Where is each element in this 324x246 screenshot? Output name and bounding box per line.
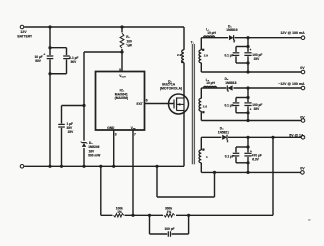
svg-text:1%: 1%	[167, 210, 172, 214]
svg-text:0V: 0V	[300, 167, 305, 171]
svg-text:12V: 12V	[20, 30, 27, 34]
svg-text:EXT: EXT	[136, 102, 142, 106]
svg-text:12V @ 100 mA: 12V @ 100 mA	[280, 31, 305, 35]
svg-text:1N5819: 1N5819	[226, 28, 237, 32]
svg-text:25V: 25V	[254, 57, 261, 61]
svg-text:1%: 1%	[117, 210, 122, 214]
svg-text:3: 3	[115, 133, 117, 137]
svg-text:0.1 µF: 0.1 µF	[224, 54, 233, 58]
svg-text:6.3V: 6.3V	[252, 157, 259, 161]
svg-text:+: +	[43, 53, 45, 57]
svg-text:0.1 µF: 0.1 µF	[225, 155, 234, 159]
svg-text:(MAXIM): (MAXIM)	[115, 96, 128, 100]
svg-text:10 µH: 10 µH	[206, 81, 215, 85]
svg-text:25V: 25V	[68, 130, 75, 134]
svg-text:(MOTOROLA): (MOTOROLA)	[160, 87, 182, 91]
svg-text:+: +	[249, 48, 251, 52]
svg-text:5: 5	[119, 68, 121, 72]
svg-text:2.6: 2.6	[203, 105, 208, 109]
svg-text:0.1 µF: 0.1 µF	[224, 103, 233, 107]
svg-text:0V: 0V	[300, 66, 305, 70]
svg-text:+: +	[250, 108, 252, 112]
svg-text:0V: 0V	[300, 116, 305, 120]
svg-text:100 pF: 100 pF	[165, 227, 175, 231]
svg-text:5V @ 1A: 5V @ 1A	[289, 133, 304, 137]
svg-text:−12V @ 100 mA: −12V @ 100 mA	[278, 82, 305, 86]
svg-text:1N5818: 1N5818	[225, 81, 236, 85]
svg-text:2.9: 2.9	[177, 53, 182, 57]
svg-text:7: 7	[134, 133, 136, 137]
svg-text:6: 6	[146, 99, 148, 103]
svg-text:2.9: 2.9	[204, 53, 209, 57]
svg-text:BATTERY: BATTERY	[17, 34, 33, 38]
svg-text:35V: 35V	[254, 107, 261, 111]
svg-text:50V: 50V	[71, 60, 78, 64]
svg-text:50V: 50V	[35, 59, 42, 63]
svg-text:500 mW: 500 mW	[88, 154, 100, 158]
svg-text:10 µH: 10 µH	[207, 31, 216, 35]
svg-text:1N5821: 1N5821	[218, 130, 229, 134]
svg-text:GND: GND	[107, 126, 115, 130]
svg-text:1: 1	[206, 155, 208, 159]
svg-text:¼W: ¼W	[126, 44, 132, 48]
